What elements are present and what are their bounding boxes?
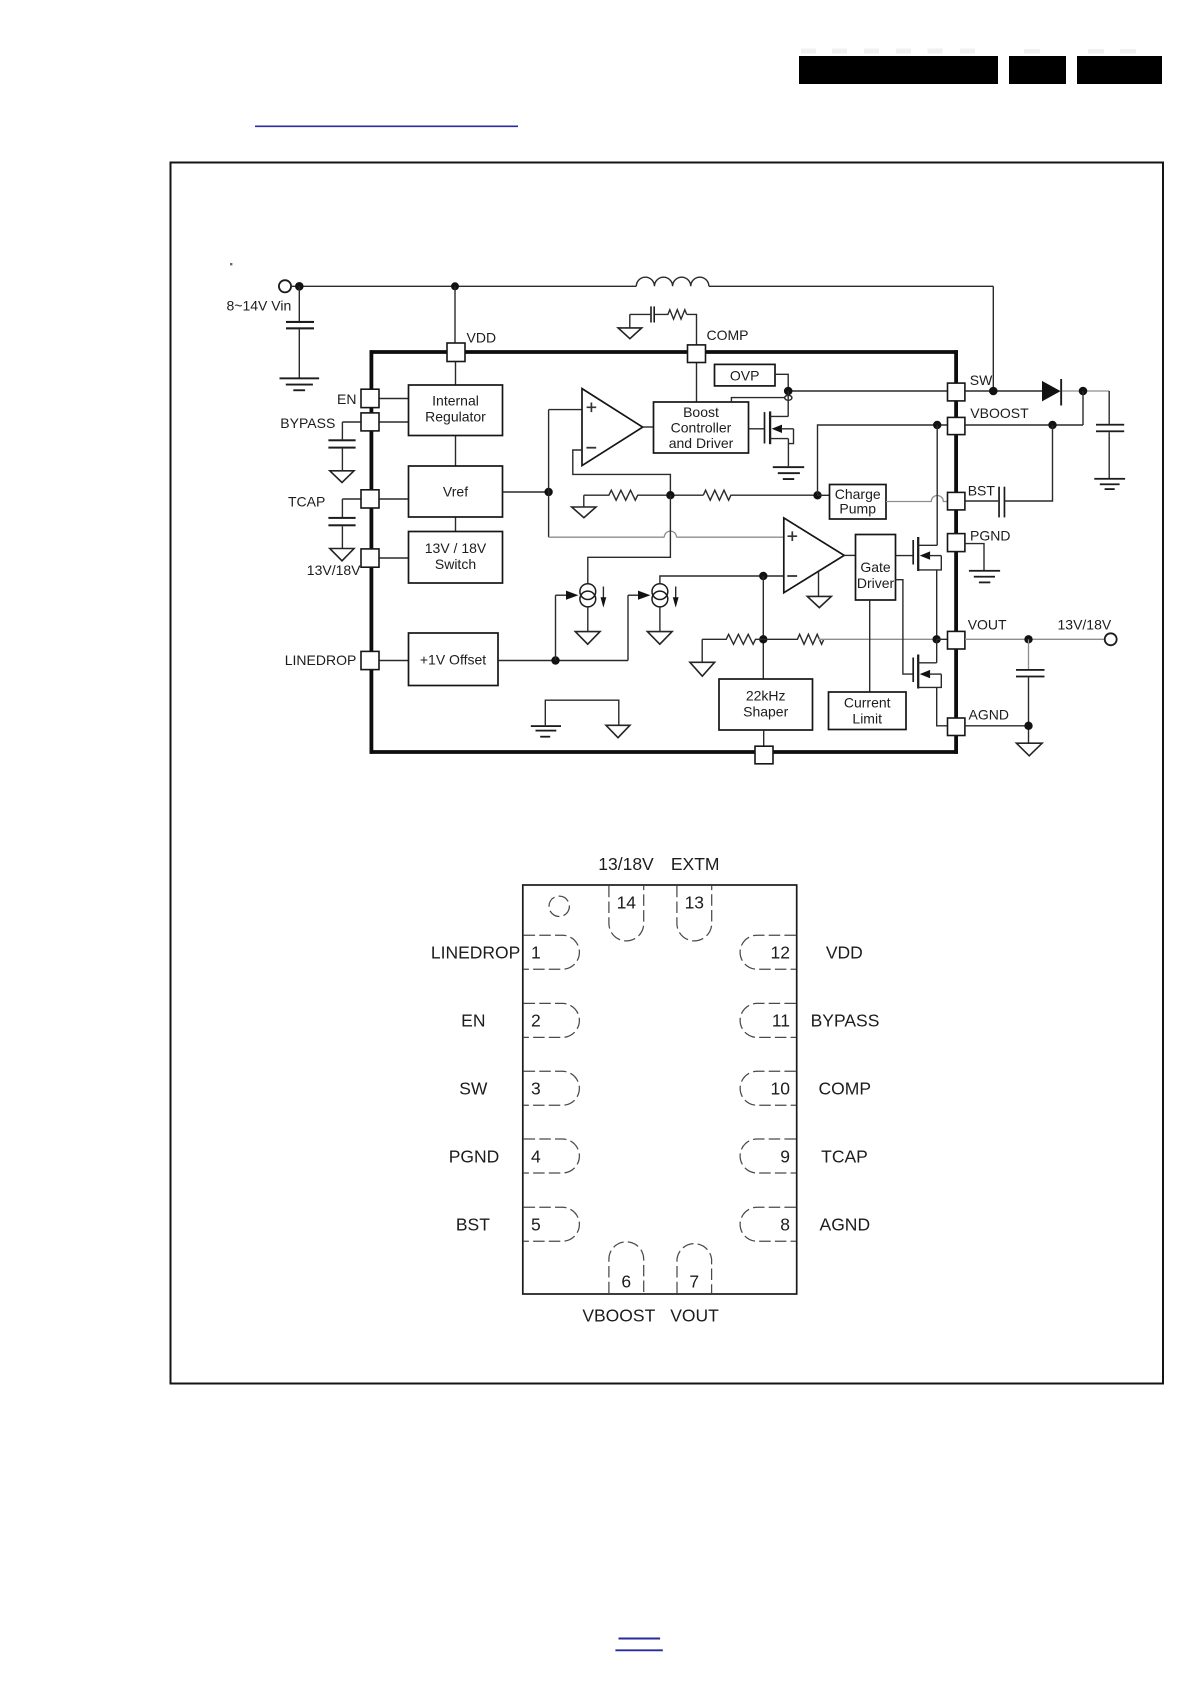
ground COMP: [629, 314, 631, 328]
box charge pump: [830, 485, 887, 520]
ground I2: [647, 632, 672, 645]
pin 4 pad: [524, 1139, 580, 1173]
node Vref: [544, 488, 552, 496]
svg-text:COMP: COMP: [707, 327, 749, 343]
wire VBOOST external: [965, 424, 1083, 426]
svg-text:VDD: VDD: [826, 943, 863, 963]
wire offset to I2: [627, 595, 629, 660]
svg-text:Pump: Pump: [839, 501, 876, 517]
wire OVP node to Q1 drain: [787, 391, 789, 416]
svg-text:EN: EN: [337, 391, 356, 407]
pin LINEDROP: [361, 651, 379, 669]
svg-text:2: 2: [531, 1011, 541, 1031]
node VOUT cap: [1024, 635, 1032, 643]
transistor Q1: [749, 411, 794, 466]
svg-text:EN: EN: [461, 1011, 485, 1031]
svg-text:13: 13: [685, 893, 704, 913]
wire gate driver to current limit: [869, 600, 871, 692]
box Vref: [409, 466, 503, 517]
input terminal 8~14V Vin: [279, 280, 291, 292]
node offset: [551, 656, 559, 664]
transistor Q2: [913, 537, 941, 639]
pin TCAP: [361, 490, 379, 508]
wire boost top to OVP crossing: [731, 398, 784, 402]
wire U2 output: [844, 554, 855, 556]
box +1V offset: [409, 633, 499, 686]
capacitor input: [286, 286, 314, 377]
box boost controller: [654, 402, 749, 453]
svg-text:VBOOST: VBOOST: [582, 1305, 655, 1325]
node SW inductor junction: [989, 387, 998, 396]
wire COMP compensation: [687, 314, 697, 345]
pin BST: [948, 492, 965, 510]
svg-text:8: 8: [780, 1215, 790, 1235]
svg-text:Driver: Driver: [857, 575, 895, 591]
box internal regulator: [409, 385, 503, 436]
svg-text:AGND: AGND: [969, 706, 1009, 722]
node BST cap top: [1048, 421, 1056, 429]
wire node A to current source: [588, 495, 671, 583]
package outline: [523, 885, 797, 1294]
node OVP junction: [784, 387, 793, 396]
ground PGND: [969, 570, 1000, 583]
resistor COMP: [655, 310, 687, 319]
pin 8 pad: [740, 1207, 796, 1241]
redacted logo block 1: [799, 49, 998, 85]
svg-text:Vref: Vref: [443, 484, 468, 500]
svg-text:Shaper: Shaper: [743, 704, 788, 720]
svg-text:BYPASS: BYPASS: [280, 415, 335, 431]
svg-text:6: 6: [621, 1272, 631, 1292]
svg-text:PGND: PGND: [449, 1146, 500, 1166]
wire top rail left: [291, 285, 636, 287]
wire hop over feedback: [664, 531, 676, 537]
wire EN to regulator: [379, 398, 409, 400]
svg-text:SW: SW: [970, 372, 993, 388]
pin 13 pad: [677, 886, 712, 941]
wire Vref to switch: [455, 517, 457, 532]
svg-text:LINEDROP: LINEDROP: [285, 652, 357, 668]
pin EN: [361, 389, 379, 407]
svg-text:Boost: Boost: [683, 404, 719, 420]
svg-text:10: 10: [771, 1079, 791, 1099]
svg-text:Limit: Limit: [852, 711, 882, 727]
svg-text:Switch: Switch: [435, 556, 476, 572]
current source I1: [556, 584, 607, 632]
svg-text:13V/18V: 13V/18V: [1058, 616, 1112, 632]
svg-text:Controller: Controller: [671, 420, 732, 436]
svg-text:COMP: COMP: [819, 1079, 872, 1099]
svg-text:8~14V Vin: 8~14V Vin: [227, 298, 292, 314]
wire diode node to VBOOST: [1082, 391, 1084, 425]
pin VBOOST: [948, 417, 965, 434]
ground U2: [818, 571, 820, 596]
wire top rail right: [709, 285, 993, 287]
svg-text:EXTM: EXTM: [671, 854, 720, 874]
svg-text:Internal: Internal: [432, 393, 479, 409]
svg-text:VOUT: VOUT: [968, 616, 1007, 632]
pin1 marker circle: [549, 896, 569, 916]
wire TCAP to Vref: [342, 498, 408, 500]
node VDD branch: [451, 282, 459, 290]
op-amp U1: [582, 389, 643, 466]
figure outer frame: [171, 163, 1164, 1384]
footer link underline 2: [615, 1649, 662, 1651]
resistor R1: [584, 490, 704, 500]
svg-text:PGND: PGND: [970, 528, 1010, 544]
crossing bubble: [785, 395, 792, 400]
wire VOUT node to Q3 drain: [936, 639, 938, 663]
wire PGND to ground: [965, 544, 984, 570]
pin 12 pad: [740, 935, 796, 969]
capacitor output: [1096, 424, 1124, 478]
wire SW to diode: [965, 390, 1042, 392]
svg-text:and Driver: and Driver: [669, 435, 734, 451]
svg-text:Regulator: Regulator: [425, 409, 486, 425]
wire comparator inverting line: [660, 576, 784, 584]
node AGND: [1024, 722, 1032, 730]
svg-text:13V / 18V: 13V / 18V: [425, 540, 487, 556]
node VBOOST internal: [933, 421, 941, 429]
pin 6 pad: [609, 1242, 644, 1293]
redacted logo block 2: [1009, 49, 1066, 84]
ground reference pair bottom: [531, 700, 630, 738]
svg-text:7: 7: [689, 1272, 699, 1292]
pin AGND: [948, 718, 965, 736]
pin 3 pad: [524, 1071, 580, 1105]
svg-text:3: 3: [531, 1079, 541, 1099]
pin 10 pad: [740, 1071, 796, 1105]
svg-text:5: 5: [531, 1215, 541, 1235]
box current limit: [829, 692, 907, 730]
svg-text:VBOOST: VBOOST: [970, 405, 1029, 421]
wire VDD drop: [454, 286, 456, 343]
svg-text:SW: SW: [459, 1079, 488, 1099]
pin 5 pad: [524, 1207, 580, 1241]
wire charge pump to BST (gray with hop): [886, 496, 948, 502]
ground R3: [701, 639, 703, 662]
svg-text:AGND: AGND: [820, 1215, 871, 1235]
svg-text:22kHz: 22kHz: [746, 688, 786, 704]
wire shaper vertical: [762, 576, 764, 679]
wire BYPASS to regulator: [342, 421, 408, 423]
resistor R3: [702, 634, 763, 644]
hyperlink underline top-left: [255, 125, 518, 127]
node input junction: [295, 282, 304, 291]
IC boundary: [370, 350, 959, 754]
svg-text:VOUT: VOUT: [670, 1305, 719, 1325]
wire inductor to SW: [992, 286, 994, 391]
wire node B up to VBOOST rail: [818, 425, 948, 495]
wire VOUT external: [965, 638, 1105, 640]
svg-text:TCAP: TCAP: [821, 1146, 868, 1166]
svg-text:1: 1: [531, 943, 541, 963]
wire node B to charge pump: [818, 494, 830, 496]
wire output cap drop: [1108, 391, 1110, 424]
pin SW: [948, 383, 965, 401]
ground R1: [583, 495, 585, 507]
svg-text:TCAP: TCAP: [288, 493, 325, 509]
svg-text:11: 11: [772, 1011, 790, 1031]
pin COMP: [688, 345, 706, 363]
wire U1 inverting feedback: [573, 450, 671, 495]
capacitor COMP: [630, 306, 655, 322]
wire Vref output: [503, 491, 549, 493]
resistor R2: [703, 490, 817, 500]
svg-text:9: 9: [780, 1146, 790, 1166]
ground AGND: [1016, 743, 1042, 756]
pin 9 pad: [740, 1139, 796, 1173]
wire regulator to Vref: [455, 362, 457, 386]
svg-text:4: 4: [531, 1146, 541, 1166]
node divider junction: [759, 635, 767, 643]
svg-text:LINEDROP: LINEDROP: [431, 943, 520, 963]
ground I1: [575, 632, 600, 645]
ground Q1 source: [773, 466, 804, 480]
pin BYPASS: [361, 413, 379, 431]
pin 1 pad: [524, 935, 580, 969]
wire COMP into boost controller: [696, 362, 698, 402]
svg-text:BST: BST: [456, 1215, 490, 1235]
wire U1 output: [643, 426, 654, 428]
wire gate driver to Q3 gate: [896, 580, 914, 674]
pin PGND: [948, 534, 965, 552]
diode D1: [1042, 379, 1062, 406]
ground BYPASS: [330, 471, 354, 483]
ground output cap: [1094, 478, 1125, 490]
wire R4 to VOUT node (gray): [819, 638, 937, 640]
wire offset to I1: [555, 595, 557, 660]
footer link underline 1: [619, 1638, 661, 1640]
wire 13V/18V pin to switch: [379, 557, 409, 559]
box OVP: [715, 364, 776, 386]
terminal 13V/18V: [1105, 633, 1117, 645]
wire BST cap return: [1005, 425, 1052, 501]
box 13V/18V switch: [409, 532, 503, 584]
resistor R4: [763, 634, 824, 644]
wire diode to output node: [1062, 390, 1109, 392]
pin 13V/18V: [361, 549, 379, 567]
node VOUT internal: [932, 635, 940, 643]
wire AGND external: [965, 725, 1029, 727]
svg-text:Gate: Gate: [860, 559, 891, 575]
svg-text:BST: BST: [968, 483, 996, 499]
wire SW line internal: [788, 390, 947, 392]
svg-text:+1V Offset: +1V Offset: [420, 652, 486, 668]
stray dot: [230, 263, 232, 265]
wire LINEDROP to offset: [379, 660, 409, 662]
capacitor BST: [965, 487, 1005, 518]
wire Vref to op-amp inputs: [548, 410, 550, 538]
pin VDD: [447, 343, 465, 362]
wire Vref to comparator noninverting (gray): [549, 536, 665, 538]
inductor L1: [636, 277, 709, 286]
pin EXTM: [755, 746, 773, 764]
wire VBOOST rail down to Q2 drain: [936, 425, 938, 545]
node shaper tap: [759, 572, 767, 580]
node diode output: [1079, 387, 1088, 396]
wire offset output: [498, 660, 628, 662]
wire OVP to SW line: [775, 374, 788, 391]
capacitor TCAP: [328, 499, 355, 549]
current source I2: [628, 584, 679, 632]
capacitor BYPASS: [328, 422, 355, 471]
svg-text:VDD: VDD: [467, 330, 497, 346]
node A feedback junction: [666, 491, 674, 499]
pin 14 pad: [609, 886, 644, 941]
svg-text:BYPASS: BYPASS: [811, 1011, 880, 1031]
wire gate driver to Q2 gate: [896, 555, 914, 557]
wire shaper to EXTM pin: [763, 730, 765, 746]
svg-text:13/18V: 13/18V: [598, 854, 654, 874]
op-amp U2: [784, 518, 844, 593]
svg-text:12: 12: [771, 943, 790, 963]
transistor Q3: [913, 655, 947, 726]
svg-text:OVP: OVP: [730, 368, 760, 384]
pin VOUT: [948, 631, 965, 649]
pin 7 pad: [677, 1244, 712, 1294]
capacitor VOUT: [1016, 639, 1045, 743]
box 22kHz shaper: [719, 679, 813, 730]
svg-text:Current: Current: [844, 695, 891, 711]
pin 11 pad: [740, 1003, 796, 1037]
node charge pump input: [813, 491, 821, 499]
wire VOUT node to pin: [937, 638, 948, 640]
box gate driver: [856, 535, 896, 601]
ground input cap: [280, 377, 320, 391]
svg-text:14: 14: [617, 893, 637, 913]
pin 2 pad: [524, 1003, 580, 1037]
redacted logo block 3: [1077, 49, 1162, 84]
svg-text:13V/18V: 13V/18V: [307, 562, 361, 578]
ground TCAP: [330, 549, 354, 561]
